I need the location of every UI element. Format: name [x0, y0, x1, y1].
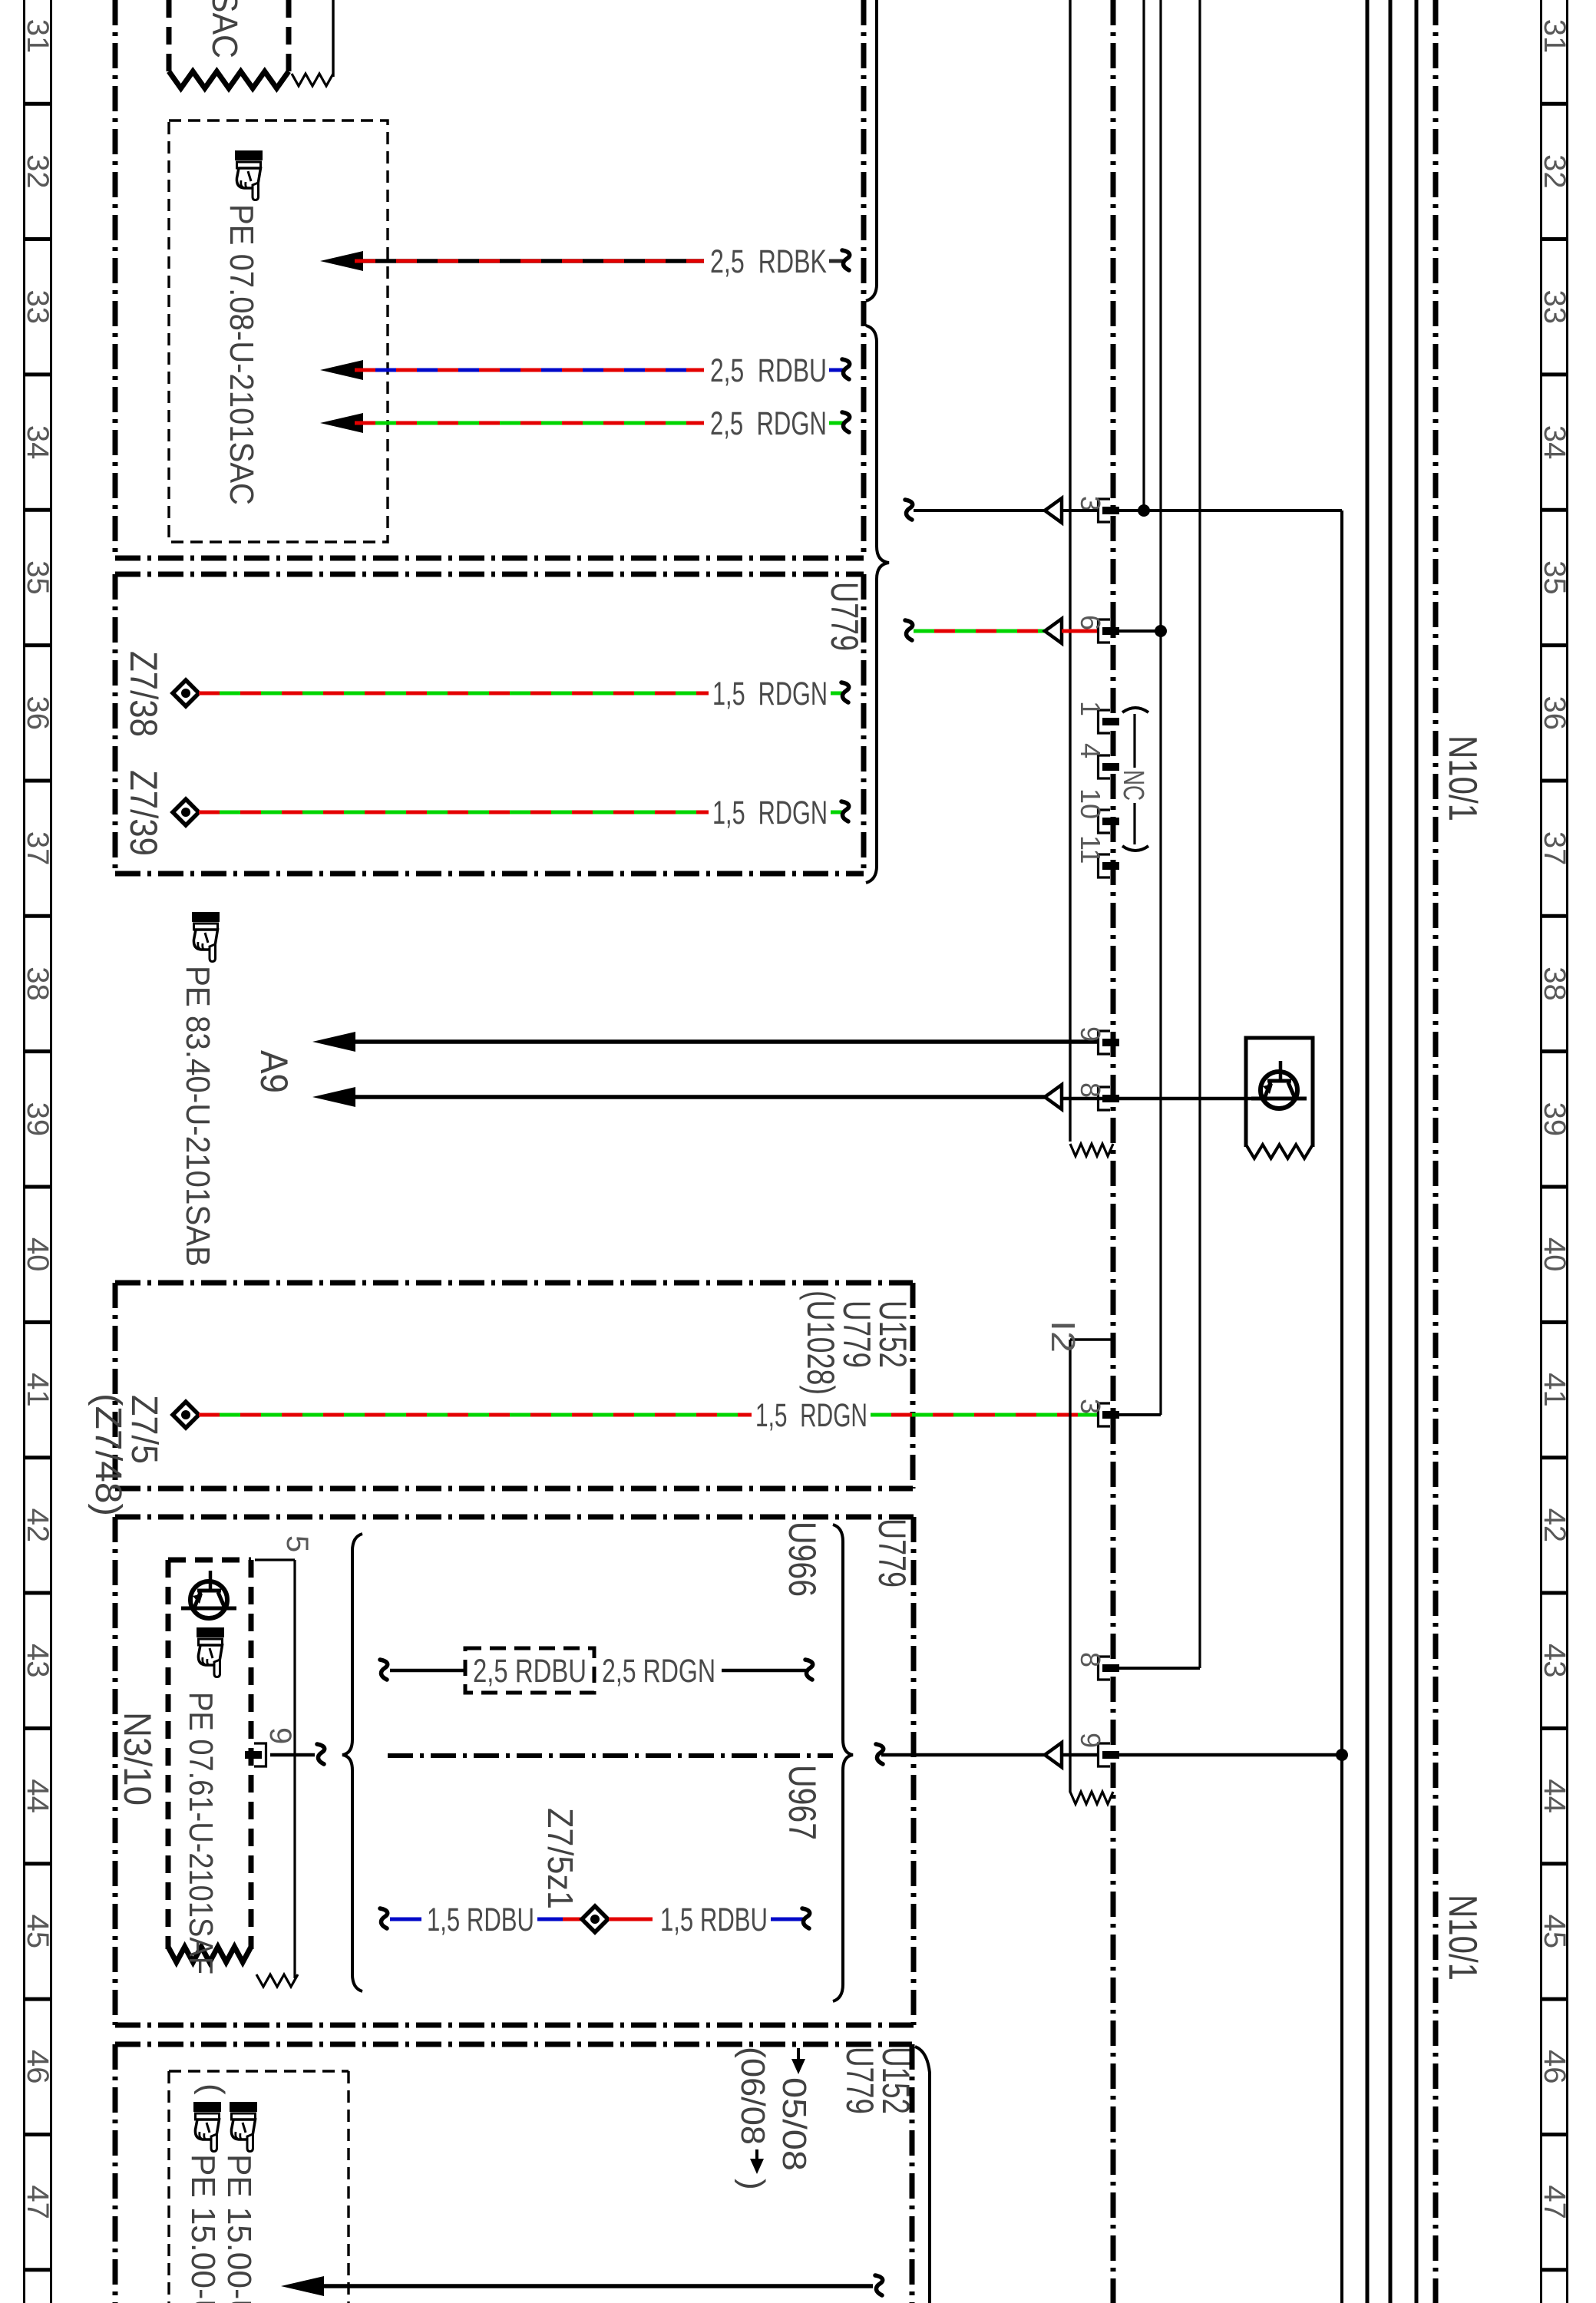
pin 11 C1 (NC) [1099, 854, 1111, 877]
harness box3 right border [910, 1283, 916, 1489]
wire 2,5 RDGN stub [829, 421, 843, 425]
wire Z7/38 stub [831, 692, 842, 696]
svg-text:N3/10: N3/10 [116, 1712, 159, 1806]
svg-text:U967: U967 [781, 1765, 824, 1840]
splice Z7/5z1 diamond [582, 1906, 608, 1932]
transistor symbol upper [1261, 1072, 1297, 1109]
wire 1563 vertical (to I2 pin 8) [1198, 0, 1201, 1668]
wire U967 blue mid-left [537, 1918, 563, 1921]
svg-text:): ) [734, 2179, 772, 2190]
NC bracket line upper [1133, 714, 1135, 768]
hand icon PE 83.40 [192, 912, 220, 962]
torn box SAC right border [286, 0, 292, 75]
svg-text:1,5 RDBU: 1,5 RDBU [427, 1902, 534, 1938]
wire N3/10 pin9 [270, 1753, 315, 1757]
wire 2,5 RDBU arrow [320, 360, 363, 380]
pin 9 C1 [1099, 1031, 1111, 1054]
power rail 1811 [1389, 0, 1393, 2303]
wire A9 upper arrow [312, 1032, 355, 1052]
node dot 1512/822 [1155, 625, 1167, 637]
svg-text:NC: NC [1117, 770, 1149, 801]
harness box4 bottom border [115, 2023, 914, 2028]
svg-text:47: 47 [21, 2185, 55, 2219]
svg-text:3: 3 [1075, 1399, 1106, 1414]
svg-text:2,5 RDBK: 2,5 RDBK [710, 243, 827, 280]
control unit N3/10 zigzag [168, 1947, 251, 1962]
svg-text:34: 34 [1538, 425, 1571, 460]
node dot 1748/2286 [1336, 1749, 1348, 1761]
svg-text:(: ( [193, 2083, 231, 2095]
svg-text:39: 39 [1538, 1102, 1571, 1137]
wire 2,5 RDBK stub [829, 259, 843, 263]
connector I2 torn end zigzag [1070, 1792, 1113, 1804]
wire 2,5 RDGN base [355, 421, 704, 425]
svg-text:47: 47 [1538, 2185, 1571, 2219]
NC bracket close paren [1122, 846, 1148, 851]
control unit N10/1 border dash-dot left [1111, 0, 1116, 2303]
shield triangle pin3 [1045, 498, 1062, 523]
dashed box PE 15.00 right [347, 2071, 349, 2303]
svg-text:I2: I2 [1044, 1320, 1082, 1353]
NC bracket line lower [1133, 803, 1135, 844]
wire pin6 red segment [1062, 629, 1097, 633]
harness box1 left border [113, 0, 118, 558]
torn thin box right edge [332, 0, 334, 77]
svg-text:35: 35 [21, 560, 55, 595]
harness box3 top border [115, 1280, 913, 1286]
wire pin9 from brace [881, 1753, 1045, 1757]
shield triangle pin9 [1045, 1743, 1062, 1767]
harness box2 bottom border [115, 871, 864, 877]
wire 2,5 RDBK arrow [320, 251, 363, 271]
squiggle RDBU [842, 359, 850, 379]
control unit N10/1 border dash-dot right [1433, 0, 1439, 2303]
svg-text:(U1028): (U1028) [799, 1290, 842, 1395]
svg-text:PE 83.40-U-2101SAB: PE 83.40-U-2101SAB [179, 966, 216, 1267]
wire pin3 left segment [914, 509, 1045, 512]
wire pin6 green/red [914, 629, 1045, 633]
svg-text:U779: U779 [823, 582, 866, 651]
svg-text:46: 46 [21, 2050, 55, 2084]
harness box4 left border [113, 1517, 118, 2025]
svg-text:11: 11 [1075, 835, 1106, 864]
harness box2 top border [115, 572, 864, 577]
wire bottom arrow [281, 2276, 324, 2296]
wire U966 left segment [390, 1669, 465, 1673]
svg-text:41: 41 [1538, 1373, 1571, 1407]
pin 9 N3/10 [254, 1743, 266, 1766]
wire 2,5 RDGN dashes [355, 421, 704, 425]
svg-text:9: 9 [1075, 1733, 1106, 1748]
grid ruler columns with cell numbers 31-47 [23, 0, 25, 2303]
svg-text:9: 9 [1075, 1026, 1106, 1042]
wire 1748 vertical (from pin3 wire corner to page bottom) [1340, 510, 1343, 2303]
pin 8 C1 [1099, 1087, 1111, 1110]
squiggle N3/10 pin9 [317, 1744, 325, 1764]
power rail 1781 [1366, 0, 1370, 2303]
wire pin9 left segment [1062, 1753, 1097, 1757]
wire 5 lead vertical [293, 1560, 296, 1978]
svg-text:2,5 RDBU: 2,5 RDBU [710, 352, 827, 389]
svg-text:1: 1 [1075, 701, 1106, 716]
wire U966 left squiggle [380, 1660, 388, 1680]
pin 1 C1 (NC) [1099, 710, 1111, 733]
svg-text:8: 8 [1075, 1652, 1106, 1667]
svg-text:1,5 RDGN: 1,5 RDGN [712, 795, 828, 831]
svg-text:Z7/5: Z7/5 [124, 1395, 164, 1464]
output stage box upper [1246, 1038, 1313, 1147]
ground Z7/5 diamond [173, 1402, 199, 1428]
wire 2,5 RDBU base [355, 368, 704, 372]
NC bracket open paren [1122, 708, 1148, 712]
wire Z7/38 1,5 RDGN [199, 692, 709, 696]
harness brace upper end [866, 0, 877, 301]
svg-text:43: 43 [1538, 1644, 1571, 1678]
harness box3 bottom border [115, 1486, 913, 1492]
wire 5 lead horizontal [255, 1558, 295, 1561]
power rail 1845 [1415, 0, 1419, 2303]
wire pin9 right segment [1118, 1753, 1342, 1757]
svg-text:45: 45 [1538, 1915, 1571, 1949]
pin 10 C1 (NC) [1099, 810, 1111, 833]
svg-text:33: 33 [21, 289, 55, 324]
wire Z7/39 1,5 RDGN [199, 811, 709, 814]
harness box5 left border [113, 2044, 118, 2303]
svg-text:U779: U779 [838, 2047, 881, 2114]
pin 3 I2 [1099, 1403, 1111, 1426]
svg-text:44: 44 [21, 1779, 55, 1813]
hand icon PE 07.08 [235, 150, 263, 200]
dashed box 2,5 RDBU [465, 1648, 594, 1693]
wire U967 red right [609, 1918, 653, 1921]
wire 2,5 RDGN arrow [320, 413, 363, 433]
svg-text:Z7/38: Z7/38 [122, 651, 165, 737]
svg-text:N10/1: N10/1 [1440, 735, 1485, 821]
wire 1512 vertical (to I2 pin 3) [1159, 0, 1161, 1415]
wire Z7/39 stub [831, 811, 842, 814]
dashed box PE 15.00 left [167, 2071, 170, 2303]
dashed box PE 07.08 [169, 121, 388, 542]
pin 6 C1 [1099, 620, 1111, 643]
harness box4 top border [115, 1515, 914, 1520]
svg-text:41: 41 [21, 1373, 55, 1407]
wire I2 pin8 to rail [1118, 1667, 1200, 1670]
svg-text:1,5 RDGN: 1,5 RDGN [755, 1397, 867, 1434]
connector I2 body line [1069, 1340, 1071, 1793]
shield triangle pin6 [1045, 619, 1062, 643]
squiggle pin6 wire [905, 620, 913, 640]
group divider U966/U967 dash-dot [388, 1753, 833, 1758]
svg-text:1,5 RDGN: 1,5 RDGN [712, 676, 828, 712]
wire A9 lower arrow [312, 1087, 355, 1107]
svg-text:39: 39 [21, 1102, 55, 1137]
svg-text:32: 32 [1538, 154, 1571, 189]
connector I2 top line [1070, 1338, 1113, 1340]
torn box SAC left border [167, 0, 172, 75]
harness box3 left border [113, 1283, 118, 1489]
svg-text:40: 40 [21, 1237, 55, 1272]
squiggle bottom arrow [875, 2275, 883, 2295]
squiggle RDGN [842, 412, 850, 432]
svg-text:2,5 RDGN: 2,5 RDGN [602, 1653, 715, 1690]
shield triangle pin8 [1045, 1085, 1062, 1109]
svg-text:4: 4 [1075, 743, 1106, 758]
svg-text:U966: U966 [781, 1522, 824, 1597]
squiggle Z7/39 [841, 801, 849, 821]
pin 4 C1 (NC) [1099, 755, 1111, 778]
arrow down 06/08 [755, 2149, 758, 2166]
svg-text:10: 10 [1075, 788, 1106, 819]
svg-text:42: 42 [1538, 1508, 1571, 1543]
svg-text:37: 37 [1538, 831, 1571, 866]
wire 1490 vertical (to node at pin 3 wire) [1142, 0, 1145, 510]
wire pin8 to box [1062, 1097, 1253, 1101]
group brace right [833, 1525, 853, 2001]
svg-text:32: 32 [21, 154, 55, 189]
wire U967 right squiggle [802, 1908, 810, 1928]
wire 2,5 RDBU dashes [355, 368, 704, 372]
svg-text:1,5 RDBU: 1,5 RDBU [660, 1902, 768, 1938]
svg-text:5: 5 [280, 1535, 314, 1552]
harness box4 right border [911, 1517, 917, 2025]
svg-text:1SAC: 1SAC [205, 0, 245, 58]
svg-text:05/08: 05/08 [775, 2077, 813, 2171]
hand icon PE 15.00 line1 [193, 2102, 221, 2152]
svg-text:8: 8 [1075, 1082, 1106, 1098]
svg-text:34: 34 [21, 425, 55, 460]
wire U967 red left [563, 1918, 581, 1921]
svg-text:(06/08: (06/08 [734, 2047, 772, 2145]
control unit N3/10 right border [249, 1560, 254, 1949]
svg-text:PE 15.00-U: PE 15.00-U [184, 2154, 222, 2303]
svg-text:38: 38 [21, 966, 55, 1001]
node dot 1490/665 [1138, 504, 1150, 517]
squiggle RDBK [842, 250, 850, 270]
wire Z7/5 1,5 RDGN left [199, 1413, 752, 1417]
svg-text:PE 07.08-U-2101SAC: PE 07.08-U-2101SAC [223, 204, 260, 505]
svg-text:Z7/5z1: Z7/5z1 [540, 1808, 580, 1909]
svg-text:Z7/39: Z7/39 [122, 770, 165, 856]
wire pin6 to node [1118, 629, 1161, 633]
torn thin box zigzag [292, 74, 333, 86]
svg-text:2,5 RDBU: 2,5 RDBU [473, 1653, 587, 1690]
squiggle pin9 wire [876, 1744, 884, 1764]
group brace left [342, 1534, 362, 1991]
wire pin3 horizontal [1118, 509, 1342, 512]
wire I2 pin3 to rail [1118, 1413, 1161, 1416]
svg-text:38: 38 [1538, 966, 1571, 1001]
wire Z7/5 1,5 RDGN right [871, 1413, 1097, 1417]
svg-text:N10/1: N10/1 [1440, 1895, 1485, 1981]
svg-text:PE 15.00-U: PE 15.00-U [220, 2154, 258, 2303]
svg-text:42: 42 [21, 1508, 55, 1543]
squiggle Z7/38 [841, 682, 849, 702]
svg-text:45: 45 [21, 1915, 55, 1949]
svg-text:(Z7/48): (Z7/48) [88, 1393, 128, 1516]
wire 2,5 RDBK dashes [355, 259, 704, 263]
svg-text:PE 07.61-U-2101SAF: PE 07.61-U-2101SAF [182, 1692, 220, 1974]
wire 2,5 RDBU stub [829, 368, 843, 372]
svg-text:36: 36 [1538, 696, 1571, 731]
wire 5 torn zigzag [256, 1974, 298, 1987]
wire U967 blue right [771, 1918, 803, 1921]
wire U967 left squiggle [380, 1908, 388, 1928]
harness box2 left border [113, 574, 118, 874]
control unit N3/10 top border [168, 1558, 251, 1563]
wire U966 right segment [722, 1669, 806, 1673]
box5 brace top hook [915, 2047, 930, 2303]
harness box1 right border [861, 0, 867, 558]
torn box SAC zigzag [169, 71, 289, 88]
svg-text:33: 33 [1538, 289, 1571, 324]
harness brace box1+box2 [866, 325, 889, 883]
svg-text:31: 31 [21, 19, 55, 54]
pin 9 I2 [1099, 1743, 1111, 1766]
svg-text:43: 43 [21, 1644, 55, 1678]
harness box2 right border [861, 574, 867, 874]
hand icon PE 15.00 line2 [230, 2102, 257, 2152]
harness box5 right border [910, 2044, 915, 2303]
ground Z7/38 diamond [173, 680, 199, 706]
ground Z7/39 diamond [173, 799, 199, 825]
svg-text:U779: U779 [871, 1518, 914, 1588]
connector strip C1 torn end zigzag [1070, 1144, 1113, 1156]
svg-text:35: 35 [1538, 560, 1571, 595]
harness box1 bottom border [115, 556, 864, 561]
wire U967 blue left [390, 1918, 421, 1921]
harness box5 top border [115, 2042, 912, 2047]
svg-text:6: 6 [1075, 615, 1106, 630]
svg-text:40: 40 [1538, 1237, 1571, 1272]
pin 3 C1 [1099, 499, 1111, 522]
squiggle pin3 wire [905, 500, 913, 520]
svg-text:9: 9 [263, 1727, 297, 1744]
svg-text:36: 36 [21, 696, 55, 731]
output stage box zigzag [1246, 1145, 1313, 1158]
hand icon N3/10 [197, 1627, 224, 1677]
wire U966 right squiggle [805, 1660, 813, 1680]
svg-text:2,5 RDGN: 2,5 RDGN [710, 405, 827, 442]
svg-text:31: 31 [1538, 19, 1571, 54]
svg-text:A9: A9 [253, 1050, 296, 1093]
pin 8 I2 [1099, 1657, 1111, 1680]
svg-text:44: 44 [1538, 1779, 1571, 1813]
arrow down 05/08 [797, 2048, 800, 2067]
connector strip C1 body line [1069, 0, 1071, 1142]
svg-text:46: 46 [1538, 2050, 1571, 2084]
transistor symbol N3/10 [190, 1581, 227, 1618]
dashed box PE 15.00 top [169, 2070, 349, 2072]
wire pin3 after triangle [1062, 509, 1097, 512]
svg-text:37: 37 [21, 831, 55, 866]
control unit N3/10 left border [166, 1560, 171, 1949]
